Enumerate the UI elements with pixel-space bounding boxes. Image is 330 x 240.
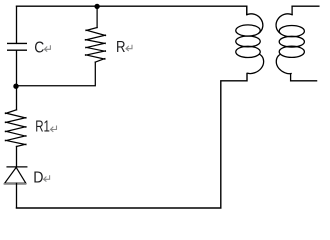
svg-text:C: C [34, 40, 44, 57]
svg-text:R1: R1 [35, 119, 50, 136]
svg-text:D: D [33, 170, 43, 187]
svg-text:R: R [116, 39, 126, 56]
